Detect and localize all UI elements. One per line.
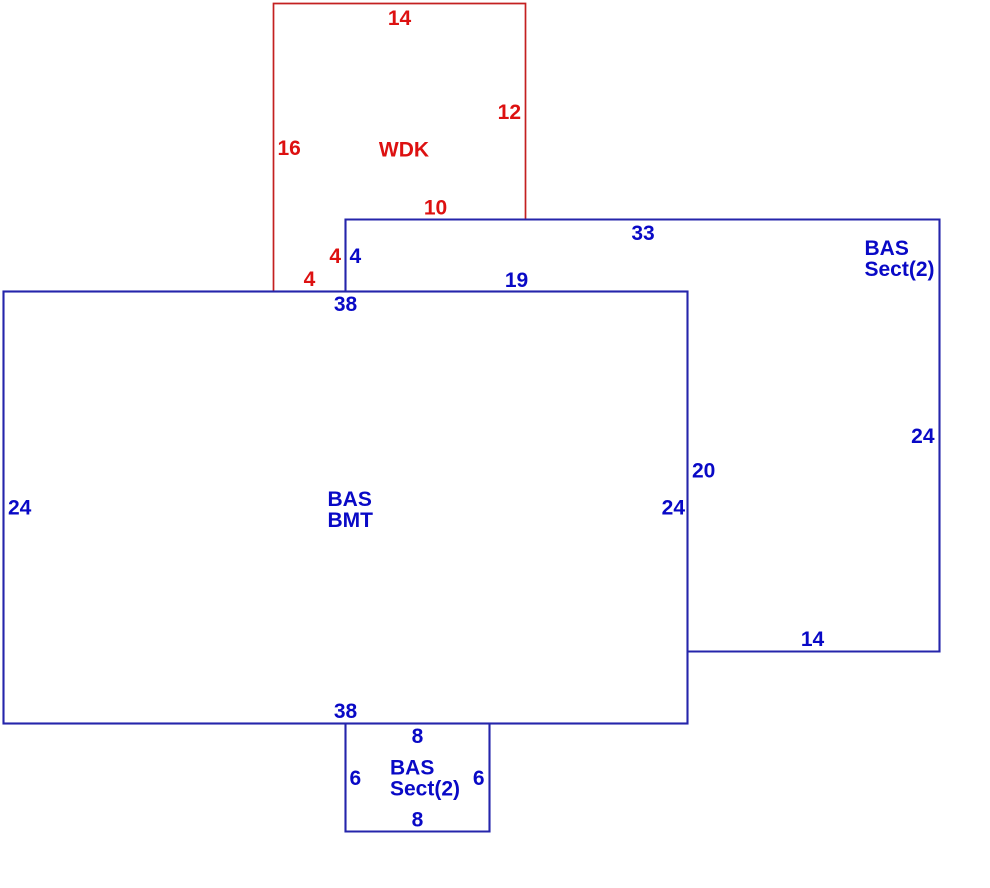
- svg-text:Sect(2): Sect(2): [865, 258, 935, 281]
- svg-text:20: 20: [692, 460, 715, 483]
- svg-text:24: 24: [662, 497, 686, 520]
- svg-text:8: 8: [412, 809, 424, 832]
- svg-text:BMT: BMT: [328, 509, 374, 532]
- svg-text:38: 38: [334, 293, 358, 316]
- svg-text:10: 10: [424, 197, 447, 220]
- svg-text:14: 14: [388, 7, 412, 30]
- svg-text:12: 12: [498, 101, 521, 124]
- svg-text:33: 33: [631, 222, 654, 245]
- svg-text:16: 16: [278, 137, 301, 160]
- svg-text:8: 8: [412, 725, 424, 748]
- svg-text:BAS: BAS: [865, 237, 909, 260]
- svg-text:19: 19: [505, 269, 528, 292]
- svg-text:14: 14: [801, 628, 825, 651]
- basement BAS BMT outline (blue rectangle): [4, 292, 688, 724]
- svg-text:4: 4: [329, 245, 341, 268]
- svg-text:24: 24: [8, 497, 32, 520]
- section BAS Sect(2) bottom outline (blue polyline, top side shared with BMT): [346, 724, 490, 832]
- svg-text:4: 4: [350, 245, 362, 268]
- svg-text:6: 6: [473, 767, 485, 790]
- svg-text:24: 24: [911, 425, 935, 448]
- svg-text:38: 38: [334, 700, 358, 723]
- svg-text:BAS: BAS: [328, 488, 372, 511]
- svg-text:WDK: WDK: [379, 139, 429, 162]
- svg-text:BAS: BAS: [390, 757, 434, 780]
- svg-text:Sect(2): Sect(2): [390, 778, 460, 801]
- section BAS Sect(2) right outline (blue polyline, shared sides drawn once): [346, 220, 940, 652]
- svg-text:6: 6: [350, 767, 362, 790]
- svg-text:4: 4: [304, 268, 316, 291]
- deck WDK outline (red polyline, hidden sides overdrawn by blue): [274, 4, 526, 292]
